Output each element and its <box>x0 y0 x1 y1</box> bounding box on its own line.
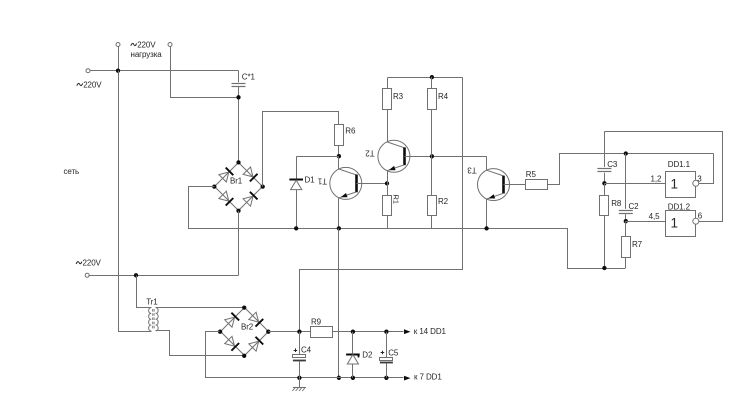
svg-text:T3: T3 <box>467 166 477 175</box>
svg-text:нагрузка: нагрузка <box>131 50 163 59</box>
svg-text:R4: R4 <box>438 92 449 101</box>
svg-text:сеть: сеть <box>64 167 80 176</box>
svg-text:T2: T2 <box>365 149 375 158</box>
svg-text:1: 1 <box>671 177 678 192</box>
svg-text:DD1.2: DD1.2 <box>668 203 691 212</box>
svg-text:R6: R6 <box>345 127 356 136</box>
svg-text:D1: D1 <box>305 176 316 185</box>
svg-text:3: 3 <box>697 174 702 183</box>
svg-text:C*1: C*1 <box>242 73 256 82</box>
svg-text:4,5: 4,5 <box>649 212 660 221</box>
svg-text:C3: C3 <box>607 160 618 169</box>
svg-text:Tr1: Tr1 <box>146 297 158 306</box>
svg-text:6: 6 <box>698 211 703 220</box>
svg-text:R5: R5 <box>526 170 537 179</box>
svg-text:1,2: 1,2 <box>651 175 662 184</box>
svg-text:R7: R7 <box>632 240 643 249</box>
svg-text:220V: 220V <box>137 40 156 49</box>
svg-text:C4: C4 <box>301 345 312 354</box>
svg-text:R3: R3 <box>393 92 404 101</box>
svg-text:T1: T1 <box>317 176 327 185</box>
svg-text:R2: R2 <box>438 197 449 206</box>
svg-text:220V: 220V <box>83 259 102 268</box>
svg-text:C2: C2 <box>629 202 640 211</box>
svg-text:Br1: Br1 <box>230 177 243 186</box>
svg-text:к 7 DD1: к 7 DD1 <box>414 372 442 381</box>
svg-text:R9: R9 <box>311 318 322 327</box>
svg-text:R8: R8 <box>611 199 622 208</box>
svg-text:Br2: Br2 <box>241 323 254 332</box>
svg-text:R1: R1 <box>391 195 400 204</box>
svg-text:к 14 DD1: к 14 DD1 <box>414 327 447 336</box>
svg-text:C5: C5 <box>388 349 399 358</box>
svg-text:D2: D2 <box>362 350 373 359</box>
svg-text:DD1.1: DD1.1 <box>668 160 691 169</box>
svg-text:1: 1 <box>671 215 678 230</box>
svg-text:220V: 220V <box>83 80 102 89</box>
